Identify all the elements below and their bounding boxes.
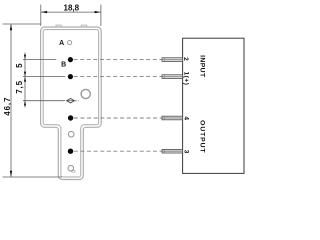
svg-text:1(+): 1(+) (183, 72, 190, 86)
svg-text:OUTPUT: OUTPUT (199, 120, 206, 153)
svg-text:18,8: 18,8 (64, 4, 80, 13)
svg-text:5: 5 (15, 63, 24, 68)
svg-text:4: 4 (182, 116, 189, 120)
svg-text:3: 3 (182, 150, 189, 154)
svg-text:46,7: 46,7 (3, 97, 12, 116)
svg-text:7,5: 7,5 (15, 80, 24, 94)
svg-text:B: B (61, 61, 66, 68)
svg-text:INPUT: INPUT (199, 55, 206, 78)
svg-text:A: A (59, 40, 64, 47)
svg-text:2: 2 (182, 57, 189, 61)
